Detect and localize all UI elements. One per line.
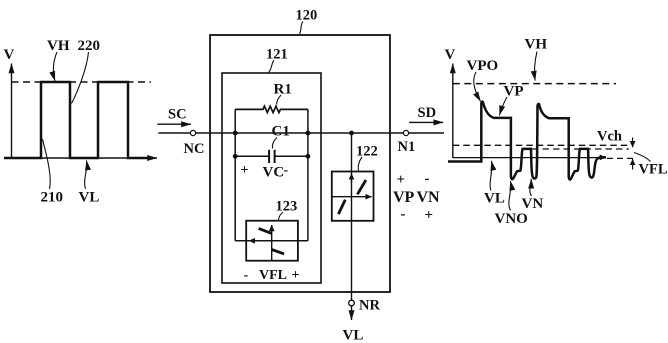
leader from 120 to box	[300, 22, 304, 35]
svg-text:VP: VP	[393, 189, 415, 206]
svg-text:VN: VN	[417, 189, 441, 206]
node NR	[349, 300, 355, 306]
capacitor C1 branch right wire	[275, 155, 308, 157]
right rail of RC network	[307, 109, 309, 240]
leader from VPO to first peak	[474, 72, 481, 102]
wire into node NC	[158, 132, 190, 134]
svg-text:-: -	[401, 207, 406, 223]
dimension upper arrow (down to dashed)	[632, 138, 634, 148]
right waveform V axis	[452, 64, 454, 159]
svg-text:NC: NC	[184, 141, 205, 157]
svg-text:123: 123	[276, 199, 298, 215]
capacitor C1 branch left wire	[235, 155, 269, 157]
leader from VH to dashed line	[534, 52, 537, 81]
junction dot right rail / main wire	[306, 131, 311, 136]
leader from C1 to capacitor	[272, 138, 277, 149]
svg-text:NR: NR	[359, 298, 380, 314]
svg-text:VC: VC	[263, 165, 285, 181]
leader from VFL to gap	[634, 153, 651, 162]
122 characteristic upper-right segment	[357, 180, 366, 194]
node N1	[403, 130, 408, 135]
leader from VNO to spike	[509, 181, 511, 211]
svg-text:120: 120	[296, 8, 318, 24]
junction dot cap branch left	[233, 154, 238, 159]
svg-text:VFL: VFL	[259, 268, 287, 283]
box 121	[222, 73, 321, 283]
junction dot main wire / 122 wire	[349, 131, 354, 136]
left arrowhead on 123 wire	[249, 240, 256, 242]
svg-text:210: 210	[41, 190, 64, 206]
svg-text:220: 220	[78, 38, 101, 54]
right waveform VH dashed line	[453, 83, 616, 85]
junction dot left rail / main wire	[233, 131, 238, 136]
svg-text:+: +	[241, 163, 249, 178]
svg-text:VNO: VNO	[495, 211, 528, 227]
svg-text:VL: VL	[343, 328, 364, 343]
svg-text:SD: SD	[418, 105, 437, 121]
svg-text:Vch: Vch	[597, 129, 622, 145]
left waveform x axis	[5, 157, 157, 159]
leader from VP to flat top	[499, 97, 507, 115]
svg-text:VL: VL	[79, 190, 100, 206]
svg-text:VL: VL	[484, 191, 505, 207]
left waveform VH dashed level line	[12, 81, 152, 83]
dashed level line Vch	[532, 148, 629, 150]
svg-text:-: -	[244, 268, 249, 283]
svg-text:VN: VN	[522, 196, 544, 212]
svg-text:121: 121	[266, 47, 288, 63]
output waveform SD	[448, 102, 606, 180]
dimension lower arrow (up to dashed)	[632, 159, 634, 170]
arrow below NR to VL	[351, 306, 353, 320]
leader from VL to low segment	[85, 161, 87, 190]
capacitor C1 right plate	[274, 150, 276, 163]
box 120	[210, 35, 390, 292]
leader from R1 to resistor	[277, 95, 282, 105]
svg-text:N1: N1	[398, 139, 416, 155]
svg-text:C1: C1	[272, 124, 290, 140]
arrow SD	[409, 121, 443, 123]
svg-text:V: V	[4, 47, 15, 63]
svg-text:SC: SC	[168, 107, 187, 123]
svg-text:V: V	[445, 47, 456, 63]
svg-text:+: +	[425, 208, 434, 224]
main wire NC to N1	[196, 132, 404, 134]
svg-text:122: 122	[356, 144, 378, 160]
svg-text:VH: VH	[525, 37, 548, 53]
box 123	[246, 221, 298, 261]
dashed level line at axis right of arrow	[607, 157, 633, 159]
leader from VH to pulse top	[53, 52, 57, 81]
svg-text:-: -	[425, 171, 430, 187]
leader from VL to baseline	[490, 161, 492, 191]
leader from VN to dip	[530, 179, 532, 196]
leader from 123 to box	[279, 212, 284, 221]
svg-text:+: +	[292, 268, 300, 283]
right waveform x axis	[453, 157, 599, 159]
122 characteristic lower-left segment	[338, 200, 345, 214]
input square wave 210	[4, 82, 149, 158]
svg-text:+: +	[397, 172, 406, 188]
left waveform V axis	[11, 64, 13, 159]
123 characteristic lower-right segment	[272, 250, 284, 254]
left rail of RC network	[234, 109, 236, 240]
junction dot cap branch right	[306, 154, 311, 159]
node NC	[190, 130, 195, 135]
122 up arrowhead on vertical wire	[351, 173, 353, 183]
svg-text:VPO: VPO	[467, 58, 499, 74]
top branch wire with resistor R1	[235, 106, 308, 112]
123 vertical axis with up arrow	[271, 225, 273, 261]
box 122	[332, 172, 374, 221]
leader from 210 to rising edge	[43, 139, 51, 189]
bottom branch wire through box 123	[235, 240, 308, 242]
svg-text:VH: VH	[47, 38, 70, 54]
122 horizontal axis with right arrow	[332, 196, 372, 198]
leader from 121 to box	[269, 60, 275, 73]
leader from 220 to falling edge	[72, 52, 89, 104]
123 characteristic upper-left segment	[259, 228, 272, 233]
dashed level line VN upper	[453, 144, 629, 146]
capacitor C1 left plate	[268, 150, 270, 163]
wire from N1 to right	[409, 132, 444, 134]
vertical wire from main line through box 122 to node NR	[351, 133, 353, 300]
svg-text:R1: R1	[274, 82, 292, 98]
arrow SC	[157, 123, 191, 125]
svg-text:VFL: VFL	[639, 162, 668, 178]
svg-text:-: -	[284, 163, 289, 178]
leader from 122 to box	[358, 157, 362, 171]
